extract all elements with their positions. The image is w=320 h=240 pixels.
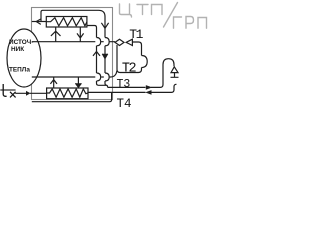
arrow tx right filled	[26, 91, 31, 96]
svg-text:Т4: Т4	[117, 97, 132, 111]
tap open triangle	[171, 67, 178, 73]
hop of riser x96.5 over pipe T1	[97, 38, 101, 46]
svg-text:ИСТОЧ-: ИСТОЧ-	[9, 39, 33, 46]
svg-text:Т2: Т2	[122, 61, 137, 76]
label tx : subscript x	[10, 92, 16, 98]
pipe tx cold water inlet	[15, 92, 46, 94]
open triangle arrow on T1	[126, 39, 132, 45]
stub down from upper exchanger with down arrow	[77, 27, 84, 42]
arrow T3 right filled	[146, 85, 153, 90]
label title: letter Г	[174, 17, 182, 28]
hop of riser x105 over pipe T2 return	[105, 73, 109, 81]
svg-text:НИК: НИК	[11, 46, 24, 53]
stub down into lower exchanger with down arrow	[75, 77, 81, 88]
text heat source	[9, 39, 33, 73]
pipe T2 return y77	[32, 71, 117, 78]
upper heat exchanger box	[46, 17, 87, 28]
T1 line to corner and down	[132, 42, 141, 56]
riser city hot water x105 (downward flow)	[105, 17, 108, 88]
down arrow on riser x105 middle	[102, 54, 107, 59]
label title: slash	[164, 3, 178, 28]
pipe over top (from tee x41 up and right to riser)	[41, 10, 105, 21]
pipe T2 out of upper exchanger with left arrow	[32, 21, 47, 23]
loop bulge on T1 drop	[142, 56, 148, 68]
valve diamond on T1	[115, 39, 124, 45]
lower heat exchanger box	[47, 88, 88, 99]
hop of riser x105 over pipe T1	[105, 38, 109, 46]
tap spout	[171, 73, 179, 78]
label title: letter П	[198, 18, 207, 29]
hop of riser x96.5 over pipe T2 return	[97, 73, 101, 81]
tap riser arc	[163, 59, 174, 67]
label title: letter Р	[186, 17, 194, 29]
arrow T4 left filled	[145, 90, 151, 95]
elevator loop back to valve	[117, 45, 142, 73]
svg-text:Т3: Т3	[117, 78, 131, 91]
heat source oval	[7, 29, 41, 87]
label title: letter Ц	[120, 3, 207, 29]
pipe T4 circulation	[88, 84, 177, 92]
pipe T1 supply main	[32, 41, 115, 43]
label tx : crossbar	[0, 89, 15, 91]
label title: letter Т	[137, 5, 148, 15]
stub up from lower exchanger with up arrow	[50, 77, 57, 88]
svg-text:ТЕПЛа: ТЕПЛа	[9, 66, 30, 73]
arrow left on T2 out	[36, 19, 41, 24]
label title: letter П	[152, 5, 163, 15]
boundary box ЦТП/ГРП	[32, 8, 113, 100]
pipe T3 hot water	[108, 65, 163, 88]
label tx : letter t stem	[3, 84, 6, 96]
lower heat exchanger coil zigzag	[47, 89, 88, 97]
T4 drop to bottom return	[32, 92, 112, 101]
svg-text:Т1: Т1	[129, 27, 143, 42]
stub up into upper exchanger with up arrow	[51, 27, 61, 42]
riser heated water x96.5 (upward flow)	[87, 26, 107, 86]
down arrow open on riser x105 top	[101, 23, 108, 29]
upper heat exchanger coil zigzag	[46, 18, 87, 26]
up arrow open on riser x96.5	[93, 52, 100, 56]
